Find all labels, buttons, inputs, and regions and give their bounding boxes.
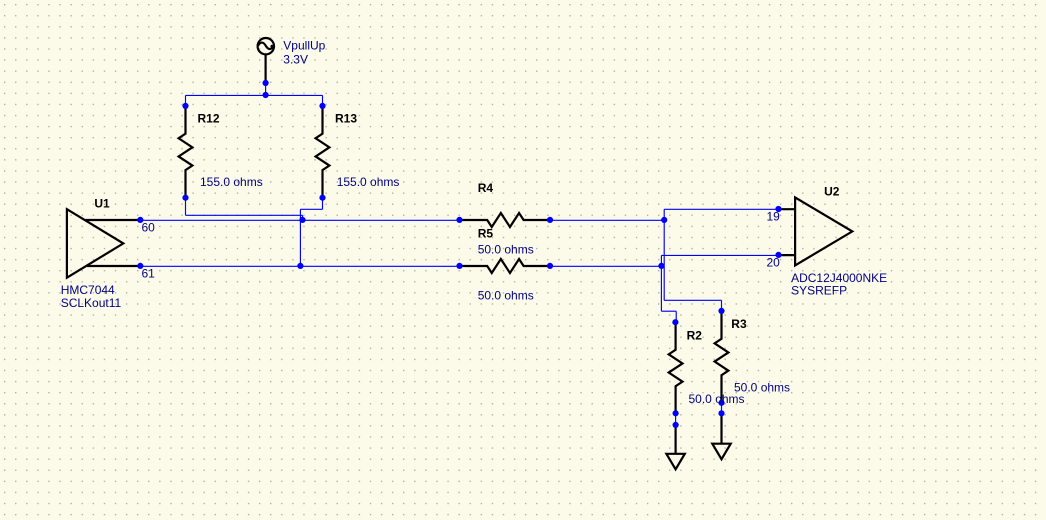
value R12 155.0 ohms [200,175,263,189]
wire R12 bottom horizontal [186,214,303,216]
wire net1 to pin 19 [664,208,778,210]
svg-text:R3: R3 [731,317,747,331]
ground below R2 [666,425,684,469]
svg-text:60: 60 [142,221,156,235]
svg-text:50.0 ohms: 50.0 ohms [478,289,534,303]
svg-text:R2: R2 [687,328,703,342]
svg-text:R13: R13 [335,111,357,125]
wire net2 to pin 20 [661,254,778,256]
resistor R2 [669,322,683,413]
label U2 [824,185,840,199]
wire R2 ground link [675,413,677,425]
wire net1 pin60 right segment [550,219,664,221]
wire net2 vertical riser [660,255,662,311]
wire R12 bottom drop [185,198,187,216]
label R2 [687,328,703,342]
svg-text:SYSREFP: SYSREFP [791,284,847,298]
wire R13 vertical to net2 [299,209,301,266]
node R13 top [319,103,325,109]
node R5 left [456,263,462,269]
node junction net1 [661,217,667,223]
svg-text:R5: R5 [478,227,494,241]
label VpullUp [283,39,325,53]
node R3 top [718,308,724,314]
node source lead [263,80,269,86]
node R4 left [456,217,462,223]
node R12 bottom [182,195,188,201]
label R13 [335,111,357,125]
value R5 50.0 ohms [478,289,534,303]
node U1 pin 61 [137,263,143,269]
wire source lead lower [265,83,267,95]
wire net1 vertical riser [663,209,665,300]
wire R13 bottom drop [322,198,324,210]
svg-text:155.0 ohms: 155.0 ohms [200,175,263,189]
label SYSREFP [791,284,847,298]
wire net1 R3 drop [721,300,723,311]
node U2 pin 20 [775,252,781,258]
pin number 60 [142,221,156,235]
svg-text:SCLKout11: SCLKout11 [61,296,122,310]
wire R12 jog to net1 [302,215,304,220]
value R3 50.0 ohms [734,380,790,394]
wire net2 R2 drop [675,311,677,322]
pin number 19 [767,209,781,223]
node R13 bottom [319,195,325,201]
node R3 ground [718,410,724,416]
resistor R4 [460,213,551,227]
pin number 20 [767,255,781,269]
resistor R3 [715,311,729,403]
node pullup tee [263,92,269,98]
node R3 bottom [718,400,724,406]
svg-text:50.0 ohms: 50.0 ohms [734,380,790,394]
node junction R13-net2 [297,263,303,269]
buffer U1 [67,209,140,278]
node U1 pin 60 [137,217,143,223]
node R2 top [672,319,678,325]
node U2 pin 19 [775,206,781,212]
value R2 50.0 ohms [689,392,745,406]
svg-text:20: 20 [767,255,781,269]
ground below R3 [712,413,730,459]
wire R12 top drop [185,95,187,106]
label R5 [478,227,494,241]
svg-text:VpullUp: VpullUp [283,39,325,53]
value R13 155.0 ohms [337,175,400,189]
svg-text:50.0 ohms: 50.0 ohms [478,243,534,257]
wire net2 pin61 right segment [550,265,661,267]
resistor R13 [316,106,330,198]
label R4 [478,181,494,195]
wire net2 to R2 horizontal [661,310,676,312]
node R12 top [182,103,188,109]
wire R13 top drop [322,95,324,106]
buffer U2 [779,197,853,265]
wire R13 bottom horizontal [300,208,322,210]
node R4 right [547,217,553,223]
label ADC12J4000NKE [791,271,887,285]
value R4 50.0 ohms [478,243,534,257]
wire net1 to R3 horizontal [664,299,721,301]
label SCLKout11 [61,296,122,310]
pin number 61 [142,267,156,281]
node R5 right [547,263,553,269]
svg-text:19: 19 [767,209,781,223]
label 3.3V [283,52,308,66]
svg-text:R4: R4 [478,181,494,195]
wire net2 pin61 left segment [140,265,459,267]
node R2 bottom [673,410,679,416]
label R12 [198,111,220,125]
wire pullup top rail [186,94,323,96]
svg-text:U2: U2 [824,185,840,199]
label U1 [94,197,110,211]
resistor R12 [179,106,193,198]
svg-text:61: 61 [142,267,156,281]
node R2 ground [673,422,679,428]
resistor R5 [460,259,551,273]
svg-text:R12: R12 [198,111,220,125]
svg-text:155.0 ohms: 155.0 ohms [337,175,400,189]
voltage source VpullUp [258,38,274,83]
node junction net2 [658,263,664,269]
label R3 [731,317,747,331]
wire R3 ground link [721,403,723,414]
svg-text:U1: U1 [94,197,110,211]
node junction R12-net1 [299,217,305,223]
wire net1 pin60 left segment [140,219,459,221]
label HMC7044 [61,283,115,297]
svg-text:3.3V: 3.3V [283,52,308,66]
